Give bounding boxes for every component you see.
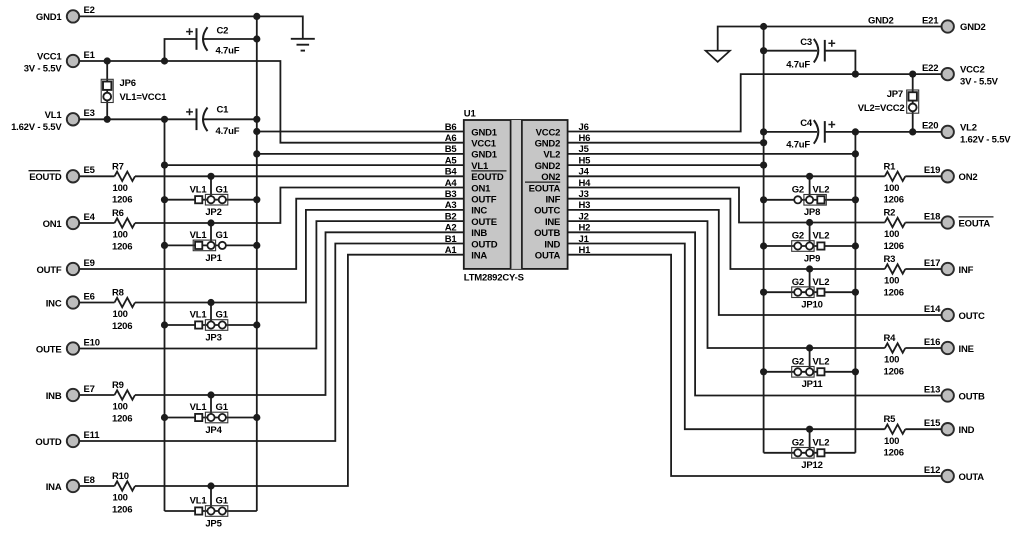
- svg-text:E2: E2: [84, 5, 95, 16]
- junction GND2 rail / JP9: [760, 242, 767, 249]
- junction VL2 rail / J5 wire: [852, 150, 859, 157]
- svg-text:G1: G1: [216, 402, 229, 413]
- wire C2 to GND1 rail: [204, 38, 257, 40]
- svg-text:R5: R5: [884, 414, 897, 425]
- svg-text:B5: B5: [445, 144, 458, 155]
- svg-text:GND2: GND2: [535, 161, 561, 172]
- pad E16 (INE turret): [942, 342, 954, 354]
- wire EOUTA: chip pin to resistor R2: [568, 188, 885, 223]
- junction VL2 rail top: [852, 128, 859, 135]
- svg-text:100: 100: [884, 183, 899, 194]
- wire OUTA: chip pin to pad: [568, 255, 942, 476]
- ground symbol (GND1): [291, 39, 315, 51]
- svg-text:100: 100: [113, 402, 128, 413]
- wire jumper JP3 row (VL1 rail to GND1 rail): [165, 324, 257, 326]
- svg-text:E13: E13: [924, 384, 940, 395]
- junction VL1 rail / A5 wire: [161, 162, 168, 169]
- svg-text:INF: INF: [545, 195, 560, 206]
- junction GND2 rail / JP10: [760, 289, 767, 296]
- junction GND2 rail / JP11: [760, 368, 767, 375]
- jumper JP4 (pins VL1 / center / G1): [190, 402, 229, 436]
- wire JP9 center pin stub: [809, 223, 811, 247]
- svg-text:INB: INB: [471, 228, 487, 239]
- junction JP10 stub on signal line: [806, 265, 813, 272]
- pad E22 (VCC2 turret): [942, 68, 954, 80]
- jumper JP12 (pins G2 / center / VL2): [792, 437, 830, 471]
- svg-text:1206: 1206: [112, 241, 132, 252]
- wire JP11 center pin stub: [809, 348, 811, 372]
- svg-text:E12: E12: [924, 465, 940, 476]
- svg-text:4.7uF: 4.7uF: [786, 140, 810, 151]
- wire INB: pad to resistor R9: [79, 394, 114, 396]
- svg-text:E3: E3: [84, 108, 95, 119]
- wire INE: resistor to pad: [905, 347, 941, 349]
- svg-text:OUTD: OUTD: [35, 437, 61, 448]
- pad E4 (ON1 turret): [67, 217, 79, 229]
- jumper JP1 (pins VL1 / center / G1): [190, 230, 229, 264]
- wire VL2: E20 to C4: [825, 131, 942, 133]
- wire jumper JP10 row (GND2 rail to VL2 rail): [764, 291, 856, 293]
- svg-text:VCC2: VCC2: [960, 65, 985, 76]
- wire jumper JP12 row (GND2 rail to VL2 rail): [764, 452, 856, 454]
- svg-text:E8: E8: [84, 475, 95, 486]
- junction JP4 stub on signal line: [207, 391, 214, 398]
- wire VL2 rail (vertical): [854, 132, 856, 453]
- wire VL1 to chip pin A5: [165, 164, 464, 166]
- svg-text:C1: C1: [217, 105, 230, 116]
- junction JP3 stub on signal line: [207, 299, 214, 306]
- svg-text:ON2: ON2: [959, 172, 978, 183]
- pad E5 (EOUTD turret): [67, 170, 79, 182]
- svg-text:OUTC: OUTC: [959, 311, 985, 322]
- svg-text:E10: E10: [84, 337, 100, 348]
- wire GND1 to chip pin B6: [257, 131, 464, 133]
- svg-text:R6: R6: [112, 208, 124, 219]
- svg-text:JP8: JP8: [804, 207, 820, 218]
- svg-text:OUTE: OUTE: [471, 217, 497, 228]
- svg-text:100: 100: [113, 309, 128, 320]
- svg-text:R3: R3: [884, 254, 896, 265]
- op-isolator U1 LTM2892CY-S body: [464, 120, 568, 269]
- svg-text:OUTB: OUTB: [959, 391, 985, 402]
- junction VCC1 / JP6 top: [104, 57, 111, 64]
- wire GND1: E2 to ground symbol: [79, 16, 302, 38]
- ground symbol (GND2, open triangle): [706, 51, 730, 62]
- svg-text:100: 100: [884, 276, 899, 287]
- jumper JP9 (pins G2 / center / VL2): [792, 231, 830, 265]
- svg-text:E21: E21: [922, 15, 939, 26]
- svg-text:1.62V - 5.5V: 1.62V - 5.5V: [11, 122, 62, 133]
- jumper JP10 (pins G2 / center / VL2): [792, 277, 830, 311]
- resistor R4 100 1206: [884, 333, 906, 377]
- jumper JP3 (pins VL1 / center / G1): [190, 310, 229, 344]
- svg-text:E5: E5: [84, 165, 96, 176]
- svg-text:B6: B6: [445, 122, 457, 133]
- svg-text:R4: R4: [884, 333, 897, 344]
- resistor R10 100 1206: [112, 471, 135, 515]
- pad E19 (ON2 turret): [942, 170, 954, 182]
- svg-text:E17: E17: [924, 258, 940, 269]
- wire EOUTD: to chip pin: [135, 175, 464, 177]
- svg-text:VL2: VL2: [813, 184, 830, 195]
- wire ON1: to chip pin: [135, 188, 464, 224]
- svg-text:1206: 1206: [112, 195, 132, 206]
- svg-text:4.7uF: 4.7uF: [786, 60, 810, 71]
- wire C1 to GND1 rail: [204, 118, 257, 120]
- junction JP1 stub on signal line: [207, 219, 214, 226]
- capacitor C1: [186, 105, 240, 137]
- label EOUTA node: [959, 217, 994, 229]
- wire GND2 rail (vertical): [763, 27, 765, 453]
- junction GND1 rail / B6 wire: [253, 128, 260, 135]
- svg-text:E7: E7: [84, 384, 95, 395]
- svg-text:JP3: JP3: [205, 332, 221, 343]
- svg-text:VL1: VL1: [190, 184, 208, 195]
- svg-text:VL1=VCC1: VL1=VCC1: [120, 92, 168, 103]
- capacitor C3: [786, 37, 835, 71]
- svg-text:JP2: JP2: [205, 207, 221, 218]
- junction JP2 stub on signal line: [207, 173, 214, 180]
- svg-text:OUTD: OUTD: [471, 239, 497, 250]
- svg-text:100: 100: [884, 355, 899, 366]
- wire jumper JP4 row (VL1 rail to GND1 rail): [165, 417, 257, 419]
- junction JP9 stub on signal line: [806, 219, 813, 226]
- svg-text:JP12: JP12: [801, 460, 822, 471]
- wire jumper JP8 row (GND2 rail to VL2 rail): [764, 199, 856, 201]
- wire jumper JP11 row (GND2 rail to VL2 rail): [764, 371, 856, 373]
- wire OUTB: chip pin to pad: [568, 232, 942, 395]
- svg-text:JP7: JP7: [887, 89, 903, 100]
- svg-text:OUTF: OUTF: [471, 195, 496, 206]
- svg-text:GND1: GND1: [471, 150, 498, 161]
- svg-text:VL1: VL1: [190, 496, 208, 507]
- wire JP3 center pin stub: [210, 303, 212, 326]
- svg-text:G2: G2: [792, 184, 804, 195]
- svg-text:VCC1: VCC1: [37, 52, 62, 63]
- svg-text:E19: E19: [924, 165, 940, 176]
- svg-text:100: 100: [113, 183, 128, 194]
- svg-text:EOUTD: EOUTD: [471, 172, 504, 183]
- wire JP10 center pin stub: [809, 269, 811, 292]
- wire ON1: pad to resistor R6: [79, 222, 114, 224]
- wire ON2: resistor to pad: [905, 175, 941, 177]
- wire INB: to chip pin: [135, 232, 464, 395]
- junction C4 / GND2 rail: [760, 128, 767, 135]
- pad E8 (INA turret): [67, 480, 79, 492]
- junction JP5 stub on signal line: [207, 482, 214, 489]
- svg-text:A4: A4: [445, 178, 458, 189]
- svg-text:VL2: VL2: [960, 122, 977, 133]
- pad E13 (OUTB turret): [942, 389, 954, 401]
- svg-text:INC: INC: [471, 206, 487, 217]
- svg-text:E22: E22: [922, 63, 938, 74]
- svg-text:E11: E11: [84, 430, 101, 441]
- svg-text:C4: C4: [800, 118, 813, 129]
- svg-text:R10: R10: [112, 471, 129, 482]
- svg-text:1206: 1206: [884, 287, 904, 298]
- junction VL1 rail / JP4: [161, 414, 168, 421]
- junction VL1 rail / JP3: [161, 321, 168, 328]
- svg-text:OUTA: OUTA: [535, 251, 561, 262]
- svg-text:VL1: VL1: [190, 230, 208, 241]
- junction VCC2 / JP7 top: [909, 71, 916, 78]
- svg-text:JP11: JP11: [802, 379, 824, 390]
- resistor R3 100 1206: [884, 254, 906, 298]
- junction VL2 rail / JP9: [852, 242, 859, 249]
- pad E21 (GND2 turret): [942, 20, 954, 32]
- wire jumper JP5 row (VL1 rail to GND1 rail): [165, 510, 257, 512]
- wire ON2: chip pin to resistor R1: [568, 175, 885, 177]
- svg-text:JP1: JP1: [205, 253, 222, 264]
- junction GND1 rail top: [253, 13, 260, 20]
- junction JP8 stub on signal line: [806, 173, 813, 180]
- svg-text:JP9: JP9: [804, 253, 820, 264]
- svg-text:VCC2: VCC2: [536, 127, 561, 138]
- svg-text:GND2: GND2: [960, 22, 986, 33]
- junction GND1 rail / B5 wire: [253, 150, 260, 157]
- jumper JP6 (VL1=VCC1): [101, 61, 167, 119]
- wire INA: to chip pin: [135, 255, 464, 486]
- wire jumper JP9 row (GND2 rail to VL2 rail): [764, 245, 856, 247]
- svg-text:G1: G1: [216, 230, 229, 241]
- svg-text:1206: 1206: [884, 366, 904, 377]
- svg-text:1206: 1206: [112, 321, 132, 332]
- svg-text:G2: G2: [792, 356, 804, 367]
- svg-text:A2: A2: [445, 223, 457, 234]
- svg-text:EOUTA: EOUTA: [959, 218, 991, 229]
- svg-text:VL2: VL2: [813, 277, 830, 288]
- svg-text:E6: E6: [84, 291, 95, 302]
- svg-text:A5: A5: [445, 155, 458, 166]
- junction GND1 rail / JP4: [253, 414, 260, 421]
- wire INE: chip pin to resistor R4: [568, 221, 885, 348]
- svg-text:G2: G2: [792, 231, 804, 242]
- pad E17 (INF turret): [942, 263, 954, 275]
- svg-text:VL2: VL2: [813, 356, 830, 367]
- svg-text:EOUTD: EOUTD: [29, 172, 62, 183]
- wire VL1: E3 to C1: [79, 118, 196, 120]
- svg-text:INC: INC: [46, 298, 62, 309]
- junction VL2 rail / JP10: [852, 289, 859, 296]
- wire VL2 to chip pin J5: [568, 153, 856, 155]
- svg-text:JP4: JP4: [205, 425, 222, 436]
- svg-text:G1: G1: [216, 184, 229, 195]
- wire GND1 rail (vertical): [256, 16, 258, 511]
- svg-text:R1: R1: [884, 161, 897, 172]
- svg-text:R7: R7: [112, 161, 124, 172]
- wire INF: chip pin to resistor R3: [568, 199, 885, 269]
- svg-text:JP6: JP6: [120, 78, 136, 89]
- svg-text:C2: C2: [217, 26, 229, 37]
- svg-text:VL2=VCC2: VL2=VCC2: [858, 103, 905, 114]
- junction C1 / GND1 rail: [253, 116, 260, 123]
- wire OUTE: to chip pin: [79, 221, 464, 348]
- svg-text:B3: B3: [445, 189, 457, 200]
- svg-text:3V - 5.5V: 3V - 5.5V: [24, 64, 63, 75]
- wire IND: resistor to pad: [905, 428, 941, 430]
- wire jumper JP2 row (VL1 rail to GND1 rail): [165, 199, 257, 201]
- svg-text:INE: INE: [959, 344, 974, 355]
- svg-text:E18: E18: [924, 211, 940, 222]
- svg-text:1206: 1206: [884, 241, 904, 252]
- svg-text:E16: E16: [924, 337, 940, 348]
- wire JP2 center pin stub: [210, 176, 212, 199]
- svg-text:INB: INB: [46, 391, 62, 402]
- svg-text:G2: G2: [792, 277, 804, 288]
- svg-text:A1: A1: [445, 245, 458, 256]
- junction VL2 / JP7 bottom: [909, 128, 916, 135]
- wire C2 branch from VCC1: [165, 39, 197, 61]
- pad E2 (GND1 turret): [67, 10, 79, 22]
- wire GND1 to chip pin B5: [257, 153, 464, 155]
- junction VL1 rail top: [161, 116, 168, 123]
- jumper JP8 (pins G2 / center / VL2): [792, 184, 830, 218]
- wire IND: chip pin to resistor R5: [568, 244, 885, 430]
- resistor R7 100 1206: [112, 161, 135, 205]
- pad E6 (INC turret): [67, 296, 79, 308]
- wire INC: to chip pin: [135, 210, 464, 303]
- svg-text:100: 100: [113, 230, 128, 241]
- resistor R9 100 1206: [112, 380, 135, 424]
- svg-text:GND1: GND1: [36, 12, 63, 23]
- pad E9 (OUTF turret): [67, 263, 79, 275]
- svg-text:4.7uF: 4.7uF: [216, 126, 240, 137]
- svg-text:A3: A3: [445, 200, 457, 211]
- svg-text:INF: INF: [959, 265, 974, 276]
- svg-text:R8: R8: [112, 288, 124, 299]
- junction C3 / VCC2 line: [852, 71, 859, 78]
- svg-text:VL1: VL1: [190, 402, 208, 413]
- svg-text:GND1: GND1: [471, 127, 498, 138]
- junction C2 / GND1 rail: [253, 35, 260, 42]
- svg-text:G2: G2: [792, 437, 804, 448]
- junction GND2 rail / H5 wire: [760, 162, 767, 169]
- junction GND2 rail / C3: [760, 47, 767, 54]
- svg-text:U1: U1: [464, 109, 477, 120]
- svg-text:VL1: VL1: [190, 310, 208, 321]
- wire EOUTA: resistor to pad: [905, 222, 941, 224]
- pad E12 (OUTA turret): [942, 470, 954, 482]
- resistor R8 100 1206: [112, 288, 135, 332]
- pad E18 (EOUTA turret): [942, 216, 954, 228]
- svg-text:E20: E20: [922, 121, 938, 132]
- jumper JP7 (VL2=VCC2): [858, 74, 919, 132]
- svg-text:JP10: JP10: [801, 300, 822, 311]
- pad E7 (INB turret): [67, 389, 79, 401]
- svg-text:VL2: VL2: [813, 437, 830, 448]
- svg-text:VL1: VL1: [45, 110, 63, 121]
- junction VL1 rail / JP2: [161, 196, 168, 203]
- svg-text:OUTB: OUTB: [534, 228, 560, 239]
- wire OUTD: to chip pin: [79, 244, 464, 442]
- svg-text:INE: INE: [545, 217, 560, 228]
- svg-text:ON1: ON1: [43, 219, 63, 230]
- pad E3 (VL1 turret): [67, 113, 79, 125]
- svg-text:E1: E1: [84, 50, 96, 61]
- svg-text:INA: INA: [471, 251, 487, 262]
- svg-text:VCC1: VCC1: [471, 139, 496, 150]
- resistor R1 100 1206: [884, 161, 906, 205]
- svg-text:GND2: GND2: [868, 15, 894, 26]
- svg-text:INA: INA: [46, 482, 62, 493]
- U1 right pin label EOUTA: [525, 182, 561, 194]
- svg-text:1.62V - 5.5V: 1.62V - 5.5V: [960, 134, 1011, 145]
- junction JP12 stub on signal line: [806, 426, 813, 433]
- junction GND2 rail top: [760, 23, 767, 30]
- svg-text:VL2: VL2: [813, 231, 830, 242]
- svg-text:OUTF: OUTF: [36, 265, 61, 276]
- wire JP8 center pin stub: [809, 176, 811, 200]
- jumper JP5 (pins VL1 / center / G1): [190, 496, 229, 530]
- wire C4 to GND2 rail: [764, 131, 817, 133]
- svg-text:ON1: ON1: [471, 183, 491, 194]
- svg-text:IND: IND: [959, 425, 975, 436]
- svg-text:G1: G1: [216, 496, 229, 507]
- wire JP12 center pin stub: [809, 429, 811, 453]
- junction VL1 / JP6 bottom: [104, 116, 111, 123]
- svg-text:G1: G1: [216, 310, 229, 321]
- svg-text:1206: 1206: [884, 195, 904, 206]
- wire GND2: E21 to ground symbol: [718, 27, 942, 51]
- U1 left pin label EOUTD: [471, 171, 506, 183]
- junction JP11 stub on signal line: [806, 344, 813, 351]
- svg-text:B4: B4: [445, 167, 458, 178]
- pad E11 (OUTD turret): [67, 435, 79, 447]
- wire C3 to VCC2 line: [825, 51, 856, 74]
- wire GND2 rail to C3: [764, 50, 817, 52]
- svg-text:1206: 1206: [112, 504, 132, 515]
- junction GND2 rail / H6 wire: [760, 139, 767, 146]
- svg-text:JP5: JP5: [205, 518, 222, 529]
- pad E1 (VCC1 turret): [67, 55, 79, 67]
- wire GND2 to chip pin H5: [568, 164, 764, 166]
- pad E14 (OUTC turret): [942, 309, 954, 321]
- svg-text:OUTC: OUTC: [534, 206, 560, 217]
- wire jumper JP1 row (VL1 rail to GND1 rail): [165, 244, 257, 246]
- svg-text:100: 100: [884, 436, 899, 447]
- resistor R2 100 1206: [884, 208, 906, 252]
- svg-text:R2: R2: [884, 208, 896, 219]
- junction VCC1 / C2 branch: [161, 57, 168, 64]
- wire VL1 rail (vertical): [164, 119, 166, 511]
- svg-text:B1: B1: [445, 234, 458, 245]
- pad E15 (IND turret): [942, 423, 954, 435]
- svg-text:E14: E14: [924, 304, 941, 315]
- svg-text:R9: R9: [112, 380, 124, 391]
- wire INA: pad to resistor R10: [79, 485, 114, 487]
- svg-text:GND2: GND2: [535, 139, 561, 150]
- junction VL2 rail / JP11: [852, 368, 859, 375]
- svg-text:OUTE: OUTE: [36, 344, 62, 355]
- capacitor C2: [186, 26, 240, 57]
- svg-text:OUTA: OUTA: [959, 472, 985, 483]
- svg-text:VL2: VL2: [543, 150, 560, 161]
- svg-text:100: 100: [884, 229, 899, 240]
- wire JP1 center pin stub: [210, 223, 212, 245]
- capacitor C4: [786, 118, 835, 150]
- wire OUTC: chip pin to pad: [568, 210, 942, 315]
- junction GND1 rail / JP1: [253, 242, 260, 249]
- svg-text:IND: IND: [544, 239, 560, 250]
- svg-text:E15: E15: [924, 418, 941, 429]
- wire OUTF: to chip pin: [79, 199, 464, 269]
- svg-text:E9: E9: [84, 258, 95, 269]
- pad E10 (OUTE turret): [67, 342, 79, 354]
- resistor R6 100 1206: [112, 208, 135, 252]
- junction GND1 rail / JP2: [253, 196, 260, 203]
- svg-text:EOUTA: EOUTA: [529, 183, 561, 194]
- pad E20 (VL2 turret): [942, 126, 954, 138]
